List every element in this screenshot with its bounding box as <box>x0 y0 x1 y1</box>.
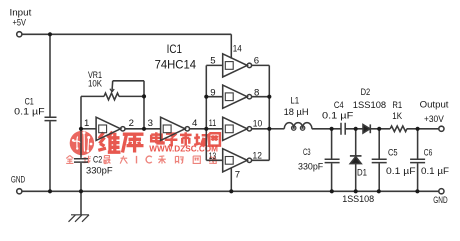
VR1 wiper <box>113 81 144 97</box>
node C5 rail <box>377 189 381 193</box>
svg-text:D1: D1 <box>357 167 367 178</box>
wire pin8 <box>252 96 270 98</box>
node bus pin10 <box>267 127 271 131</box>
svg-text:1SS108: 1SS108 <box>353 100 386 111</box>
svg-text:18 µH: 18 µH <box>284 107 309 118</box>
node C3 rail <box>330 189 334 193</box>
svg-text:0.1 µF: 0.1 µF <box>322 110 353 121</box>
svg-text:10: 10 <box>253 119 262 130</box>
inverter gate pins 3-4 <box>161 117 186 140</box>
svg-text:C4: C4 <box>334 100 344 111</box>
球 <box>83 156 90 163</box>
left input bus <box>205 65 207 160</box>
medium chars 电子市场网 <box>151 132 220 146</box>
svg-text:D2: D2 <box>361 87 371 98</box>
node pin1 <box>79 127 83 131</box>
网 <box>209 133 220 145</box>
wire pin13 <box>206 159 222 161</box>
svg-text:74HC14: 74HC14 <box>155 57 197 71</box>
svg-text:+30V: +30V <box>424 114 444 125</box>
wire pin6 <box>252 64 270 66</box>
svg-text:C5: C5 <box>388 147 398 158</box>
购 <box>175 156 183 163</box>
svg-text:R1: R1 <box>392 100 402 111</box>
inverter gate pins 13-12 <box>223 149 248 172</box>
diode D1 <box>350 157 361 164</box>
inductor L1 <box>284 123 312 129</box>
wire pin2-3 <box>125 128 161 130</box>
svg-text:2: 2 <box>129 118 134 129</box>
inverter gate pins 9-8 <box>223 85 248 108</box>
inverter gate pins 11-10 <box>223 117 248 140</box>
node pin7 rail <box>229 189 233 193</box>
svg-text:3: 3 <box>148 118 153 129</box>
capacitor C4 <box>341 123 345 135</box>
capacitor C3 <box>325 159 340 162</box>
big chars 维库 <box>98 132 143 153</box>
svg-text:330pF: 330pF <box>298 162 323 173</box>
capacitor C5 <box>372 159 387 162</box>
node C3 top <box>330 127 334 131</box>
wire C1 branch lower <box>49 121 51 191</box>
node bus pin11 <box>204 127 208 131</box>
inverter gate pins 1-2 <box>96 117 121 140</box>
node C6 rail <box>415 189 419 193</box>
node C1 bottom <box>48 189 52 193</box>
svg-text:0.1 µF: 0.1 µF <box>386 166 416 177</box>
wire pin1 <box>81 128 96 130</box>
站 <box>209 156 216 164</box>
node bus pin9 <box>204 95 208 99</box>
svg-text:GND: GND <box>11 175 25 186</box>
svg-text:0.1 µF: 0.1 µF <box>421 166 449 177</box>
node C5 top <box>377 127 381 131</box>
wire top rail <box>22 33 231 35</box>
svg-text:8: 8 <box>254 87 259 98</box>
wire C2 branch <box>80 129 82 192</box>
电 <box>151 132 163 143</box>
svg-text:Output: Output <box>420 100 449 111</box>
svg-text:1SS108: 1SS108 <box>342 194 374 205</box>
wire pin7 ground leg <box>230 168 232 192</box>
svg-text:C3: C3 <box>303 147 311 158</box>
svg-text:9: 9 <box>210 87 215 98</box>
inverter gate pins 5-6 <box>223 54 248 77</box>
ground terminal right <box>439 189 444 194</box>
wire pin12 <box>252 159 270 161</box>
node C6 top <box>416 127 420 131</box>
svg-text:0.1 µF: 0.1 µF <box>14 107 45 118</box>
svg-text:L1: L1 <box>290 96 299 107</box>
ground terminal left <box>17 189 22 194</box>
wire pin9 <box>206 96 222 98</box>
resistor R1 <box>390 126 407 132</box>
wire pin5 <box>206 64 222 66</box>
chassis ground <box>69 215 90 222</box>
row3 全球最大IC采购网站 <box>66 155 127 163</box>
right output bus <box>268 65 270 160</box>
capacitor C2 <box>74 159 88 162</box>
node C2 rail <box>79 189 83 193</box>
svg-text:5: 5 <box>210 56 215 67</box>
svg-text:GND: GND <box>433 195 447 206</box>
子 <box>165 134 178 146</box>
svg-text:12: 12 <box>253 150 262 161</box>
svg-text:C1: C1 <box>25 96 34 107</box>
svg-text:1K: 1K <box>392 111 402 122</box>
wire D2 to C5 node <box>371 128 390 130</box>
wire R1 to output <box>407 128 439 130</box>
svg-text:330pF: 330pF <box>86 165 113 176</box>
output terminal <box>439 126 444 131</box>
svg-text:10K: 10K <box>88 78 102 89</box>
node D1 top <box>354 127 358 131</box>
wire C6 branch <box>417 129 419 192</box>
diode D2 <box>363 125 370 134</box>
node VR1 wiper <box>142 94 146 98</box>
capacitor C6 <box>410 159 425 162</box>
库 <box>123 134 144 152</box>
svg-text:13: 13 <box>209 151 216 162</box>
diode D1 branch <box>355 129 357 192</box>
wire C1 branch upper <box>49 34 51 116</box>
wire pin10 <box>252 128 270 130</box>
全 <box>66 155 73 163</box>
svg-text:14: 14 <box>233 43 243 54</box>
input terminal <box>17 32 22 37</box>
网 <box>193 156 200 163</box>
wire L1 to C3 node <box>312 128 341 130</box>
最 <box>104 156 110 164</box>
大 <box>120 156 127 164</box>
row3 IC <box>137 156 152 164</box>
node bus pin8 <box>267 95 271 99</box>
wire wiper node down <box>143 96 145 128</box>
维 <box>98 133 106 151</box>
场 <box>194 134 207 146</box>
node D1 rail <box>354 189 358 193</box>
wire pin14 drop <box>230 34 232 58</box>
采 <box>158 156 166 164</box>
capacitor C1 <box>45 117 57 120</box>
wire C5 branch <box>378 129 380 192</box>
chassis ground stem <box>80 191 82 215</box>
svg-text:C2: C2 <box>93 154 102 165</box>
市 <box>180 132 192 146</box>
wire bottom rail <box>22 190 439 192</box>
logo circle <box>70 131 94 155</box>
wire bus to L1 <box>269 128 284 130</box>
wire C3 branch <box>331 129 333 192</box>
wire C4 to D1 node <box>345 128 363 130</box>
svg-text:1: 1 <box>84 118 89 129</box>
wire pin4 <box>190 128 207 130</box>
svg-text:4: 4 <box>192 118 198 129</box>
node pin2-3 <box>142 127 146 131</box>
wire pin11 <box>206 128 222 130</box>
svg-text:11: 11 <box>209 118 216 129</box>
wire VR1 left leg <box>80 96 82 128</box>
potentiometer VR1 <box>81 95 104 97</box>
svg-text:C6: C6 <box>424 147 433 158</box>
svg-text:6: 6 <box>254 56 259 67</box>
node C1 top <box>48 32 52 36</box>
svg-text:7: 7 <box>235 170 240 181</box>
svg-text:IC1: IC1 <box>167 44 182 56</box>
svg-text:+5V: +5V <box>13 18 27 29</box>
